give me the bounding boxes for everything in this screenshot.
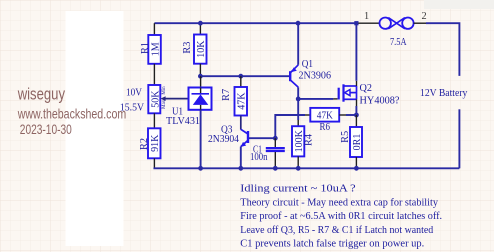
resistor R3: [182, 35, 207, 64]
svg-text:47K: 47K: [237, 92, 248, 110]
label 10V: [126, 87, 142, 99]
label Q3: [221, 123, 233, 135]
junction dot node mid at R7: [238, 74, 243, 79]
wire Q1 collector down: [297, 87, 299, 99]
label 2N3904: [208, 133, 240, 145]
wire R1 top lead: [153, 23, 155, 35]
junction dot Q1 collector node: [296, 97, 301, 102]
wire battery bottom: [458, 109, 460, 168]
wire R3 top lead: [199, 23, 201, 34]
annotation leave off: [240, 224, 433, 236]
label Q2: [360, 82, 373, 94]
label 100n: [250, 151, 268, 163]
fuse F1: [380, 18, 414, 29]
wire U1 top lead: [200, 76, 202, 94]
svg-text:R6: R6: [320, 121, 331, 133]
annotation fire proof: [240, 210, 442, 222]
resistor R2: [139, 128, 161, 158]
transistor Q1: [290, 65, 298, 88]
annotation wiseguy: [17, 84, 65, 103]
wire pot bottom to R2: [153, 113, 155, 128]
wire R3 bottom lead: [199, 64, 201, 76]
wire U1 bottom lead: [200, 110, 202, 169]
capacitor C1: [266, 138, 285, 168]
svg-text:0R1: 0R1: [352, 134, 363, 151]
resistor R7: [221, 87, 248, 116]
wire Q1 emitter to rail: [297, 23, 299, 65]
annotation 2023-10-30: [20, 122, 72, 137]
junction dot rail-R4: [296, 166, 301, 171]
label 7.5A: [390, 36, 407, 48]
svg-text:www.thebackshed.com: www.thebackshed.com: [17, 107, 126, 122]
fuse F1 pin 2: [414, 11, 427, 23]
junction dot source node: [354, 113, 359, 118]
svg-text:TLV431: TLV431: [166, 115, 200, 127]
svg-text:7.5A: 7.5A: [390, 36, 407, 48]
transistor Q3: [241, 129, 248, 147]
svg-text:2N3906: 2N3906: [299, 69, 332, 81]
battery BT1 12V: [420, 87, 468, 99]
annotation idling current: [240, 183, 356, 195]
svg-text:R2: R2: [139, 138, 150, 150]
svg-text:2023-10-30: 2023-10-30: [20, 122, 72, 137]
fuse F1 pin 1: [358, 11, 379, 23]
svg-text:2N3904: 2N3904: [208, 133, 240, 145]
annotation www.thebackshed.com: [17, 107, 126, 122]
wire Q3 base to C1 node: [249, 137, 275, 139]
junction dot node mid at R3: [198, 74, 203, 79]
resistor R1: [140, 35, 162, 64]
wire R6 right lead: [339, 114, 356, 116]
wire gate node horizontal: [298, 98, 333, 100]
svg-text:Max: Max: [162, 99, 167, 109]
svg-text:R7: R7: [221, 89, 232, 101]
svg-text:10V: 10V: [126, 87, 142, 99]
svg-text:10K: 10K: [196, 40, 207, 58]
wire mid node horizontal: [200, 75, 289, 77]
svg-text:C1 prevents latch false trigge: C1 prevents latch false trigger on power…: [240, 238, 424, 250]
annotation C1 prevents: [240, 238, 424, 250]
svg-text:HY4008?: HY4008?: [360, 95, 400, 107]
wire R6 left lead: [305, 114, 310, 116]
resistor R5: [340, 127, 363, 157]
wire R7 bottom to Q3 collector: [240, 116, 242, 130]
wire R5 bottom lead: [355, 157, 357, 168]
label R6: [320, 121, 331, 133]
potentiometer 50K: [148, 85, 167, 113]
label 15.5V: [120, 102, 144, 114]
transistor Q2 MOSFET: [333, 81, 356, 106]
label TLV431: [166, 115, 200, 127]
svg-text:Theory circuit - May need extr: Theory circuit - May need extra cap for …: [240, 197, 438, 209]
wire bottom rail: [154, 166, 459, 169]
svg-text:Min: Min: [162, 86, 167, 95]
svg-text:R5: R5: [340, 131, 351, 143]
svg-text:1: 1: [364, 11, 369, 22]
wire Q2 source down: [355, 106, 357, 115]
annotation theory circuit: [240, 197, 438, 209]
svg-text:50K: 50K: [150, 90, 161, 108]
svg-text:15.5V: 15.5V: [120, 102, 144, 114]
label Q1: [302, 58, 313, 70]
junction dot rail-R5: [354, 166, 359, 171]
svg-text:R3: R3: [182, 42, 193, 54]
resistor R4: [292, 126, 315, 156]
junction dot rail-Q1: [296, 21, 301, 26]
wire Q2 drain up: [355, 23, 357, 81]
svg-text:Q2: Q2: [360, 82, 373, 94]
svg-text:100K: 100K: [294, 129, 305, 152]
junction square rail-fuse: [354, 21, 358, 25]
svg-text:R4: R4: [304, 134, 315, 146]
op-amp U1 TLV431: [189, 88, 212, 110]
junction dot rail-Q3: [238, 166, 243, 171]
wire Q3 emitter to rail: [240, 147, 242, 169]
svg-text:wiseguy: wiseguy: [17, 84, 65, 103]
wire top rail: [154, 22, 356, 24]
wire R1 bottom to pot: [153, 64, 155, 85]
svg-text:R1: R1: [140, 42, 151, 54]
label C1: [253, 143, 262, 155]
wire C1 node up and right: [275, 115, 305, 138]
svg-text:Fire proof - at ~6.5A with 0R1: Fire proof - at ~6.5A with 0R1 circuit l…: [240, 210, 442, 222]
junction dot Q3 base node: [273, 136, 278, 141]
svg-text:Q1: Q1: [302, 58, 313, 70]
svg-text:2: 2: [422, 11, 427, 22]
resistor R6: [310, 108, 339, 122]
svg-text:100n: 100n: [250, 151, 268, 163]
svg-text:Idling current ~ 10uA ?: Idling current ~ 10uA ?: [240, 183, 356, 195]
svg-text:91K: 91K: [150, 134, 161, 152]
label 2N3906: [299, 69, 332, 81]
wire collector node down to R4: [297, 99, 299, 126]
label HY4008?: [360, 95, 400, 107]
wire pot wiper to U1 ref: [161, 94, 193, 101]
wire fuse to battery top: [426, 23, 459, 76]
wire R7 top lead: [240, 76, 242, 87]
svg-text:1M: 1M: [150, 42, 161, 56]
junction dot rail-U1: [198, 166, 203, 171]
svg-text:Leave off Q3, R5 - R7 & C1 if: Leave off Q3, R5 - R7 & C1 if Latch not …: [240, 224, 433, 236]
wire R4 bottom lead: [297, 156, 299, 168]
label U1: [172, 105, 183, 117]
svg-text:12V Battery: 12V Battery: [420, 87, 468, 99]
junction dot rail-R3: [198, 21, 203, 26]
wire R2 bottom lead: [153, 158, 155, 168]
junction dot rail-C1: [273, 166, 278, 171]
wire R5 top lead: [355, 115, 357, 127]
